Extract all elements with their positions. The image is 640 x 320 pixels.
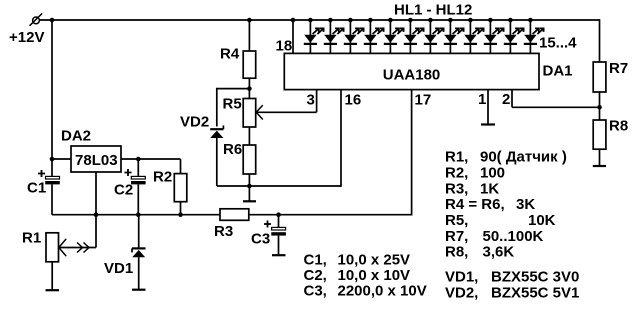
svg-text:R2: R2 bbox=[153, 169, 172, 186]
wire: pin 2 to R7/R8 junction bbox=[512, 106, 600, 108]
zener diode VD2 bbox=[210, 125, 223, 138]
svg-text:10K: 10K bbox=[528, 212, 556, 229]
svg-text:R1,: R1, bbox=[445, 149, 468, 166]
svg-text:VD2,: VD2, bbox=[445, 285, 478, 302]
svg-text:50..100K: 50..100K bbox=[483, 228, 544, 245]
svg-text:R3,: R3, bbox=[445, 181, 468, 198]
svg-text:R7,: R7, bbox=[445, 228, 468, 245]
value list: resistors and diodes bbox=[445, 149, 579, 302]
node: C2 / VD1 junction bbox=[136, 212, 141, 217]
wire: R3 to pin 17 bbox=[249, 214, 412, 216]
ground bar pin 1 bbox=[481, 123, 495, 125]
wire: wiper to pin 3 bbox=[316, 90, 318, 113]
svg-text:R8: R8 bbox=[609, 118, 628, 135]
R1 wiper arrow with chevrons bbox=[59, 239, 96, 256]
node: R4 top junction bbox=[247, 18, 252, 23]
resistor R5 (trimmer) bbox=[243, 99, 256, 128]
svg-text:+12V: +12V bbox=[9, 29, 44, 46]
capacitor C3 bbox=[271, 215, 286, 255]
svg-text:90( Датчик ): 90( Датчик ) bbox=[480, 149, 567, 166]
wire: DA2 ground pin bbox=[95, 172, 97, 215]
ground stub under R6 junction bbox=[243, 186, 256, 201]
node: rail / left branch junction bbox=[50, 18, 55, 23]
svg-text:C1: C1 bbox=[27, 180, 46, 197]
svg-text:15...4: 15...4 bbox=[539, 35, 577, 52]
svg-text:3: 3 bbox=[307, 92, 315, 109]
R5 wiper arrow bbox=[256, 105, 316, 119]
LED HL7 bbox=[424, 18, 444, 54]
wire: VD2 branch down bbox=[216, 88, 218, 127]
node: DA2 gnd / R1 wiper junction bbox=[94, 212, 99, 217]
potentiometer R1 (sensor) bbox=[46, 233, 59, 262]
svg-text:2: 2 bbox=[502, 91, 510, 108]
svg-text:10,0 x 10V: 10,0 x 10V bbox=[338, 267, 411, 284]
wire: pin 2 stub bbox=[511, 90, 513, 108]
wire: right rail down to R7 bbox=[599, 19, 601, 62]
LED HL4 bbox=[364, 18, 384, 54]
svg-text:17: 17 bbox=[415, 92, 432, 109]
ground bar R1 bbox=[46, 289, 60, 291]
LED HL5 bbox=[384, 18, 404, 54]
svg-text:C3,: C3, bbox=[304, 283, 327, 300]
LED HL10 bbox=[484, 18, 504, 54]
svg-text:HL1 - HL12: HL1 - HL12 bbox=[394, 2, 472, 19]
svg-text:100: 100 bbox=[480, 165, 505, 182]
svg-text:R8,: R8, bbox=[445, 244, 468, 261]
node: C3 tap bbox=[276, 212, 281, 217]
LED HL2 bbox=[324, 18, 344, 54]
wire: R5 to R6 bbox=[248, 127, 250, 145]
svg-text:DA1: DA1 bbox=[543, 63, 573, 80]
resistor R7 bbox=[593, 62, 606, 92]
svg-text:3K: 3K bbox=[516, 196, 535, 213]
svg-text:3,6K: 3,6K bbox=[483, 244, 515, 261]
wire: R1 wiper up to bus bbox=[95, 215, 97, 248]
LED HL1 bbox=[304, 18, 324, 54]
svg-text:18: 18 bbox=[276, 38, 293, 55]
LED HL8 bbox=[444, 18, 464, 54]
ground bar R8 bbox=[593, 165, 606, 167]
voltage regulator DA2 78L03 bbox=[71, 146, 121, 172]
input terminal +12V connector bbox=[30, 13, 43, 25]
wire: R8 bottom bbox=[599, 149, 601, 165]
resistor R8 bbox=[593, 120, 606, 149]
LED HL11 bbox=[504, 18, 524, 54]
svg-text:78L03: 78L03 bbox=[75, 152, 118, 169]
svg-text:R4: R4 bbox=[220, 46, 240, 63]
resistor R2 bbox=[174, 159, 187, 215]
capacitor C1 bbox=[45, 176, 60, 184]
wire: bottom bus bbox=[52, 214, 220, 216]
wire: R7 to junction bbox=[599, 92, 601, 120]
resistor R4 bbox=[243, 51, 256, 78]
svg-text:10,0 x 25V: 10,0 x 25V bbox=[338, 252, 411, 269]
wire: R4 branch from rail bbox=[248, 20, 250, 51]
svg-text:R2,: R2, bbox=[445, 165, 468, 182]
svg-text:UAA180: UAA180 bbox=[383, 67, 441, 84]
plus sign C1 bbox=[38, 170, 45, 177]
svg-text:BZX55C 3V0: BZX55C 3V0 bbox=[491, 269, 579, 286]
wire: top supply rail bbox=[39, 19, 599, 21]
LED HL3 bbox=[344, 18, 364, 54]
LED HL6 bbox=[404, 18, 424, 54]
wire: R4 to R5 bbox=[248, 78, 250, 98]
node: R7/R8 junction bbox=[597, 105, 602, 110]
resistor R3 (horizontal) bbox=[220, 209, 249, 221]
svg-text:VD2: VD2 bbox=[180, 114, 209, 131]
svg-text:C2,: C2, bbox=[304, 267, 327, 284]
wire: R6 bottom to junction bbox=[248, 174, 250, 186]
svg-text:1K: 1K bbox=[480, 181, 499, 198]
node: C2 tap bbox=[136, 157, 141, 162]
svg-text:R5,: R5, bbox=[445, 212, 468, 229]
wire: VD2/R6/pin16 horizontal bbox=[217, 185, 341, 187]
svg-text:R5: R5 bbox=[223, 96, 242, 113]
value list: capacitors bbox=[304, 252, 427, 300]
wire: pin 18 from rail to DA1 bbox=[292, 20, 294, 53]
resistor R6 bbox=[243, 145, 256, 174]
svg-text:R4 = R6,: R4 = R6, bbox=[445, 196, 505, 213]
plus sign C3 bbox=[264, 221, 271, 228]
wire: junction to VD2 branch bbox=[217, 88, 250, 90]
wire: VD2 anode down bbox=[216, 138, 218, 186]
wire: left rail down bbox=[51, 20, 53, 177]
svg-text:C1,: C1, bbox=[304, 252, 327, 269]
svg-text:1: 1 bbox=[478, 91, 486, 108]
LED HL9 bbox=[464, 18, 484, 54]
svg-text:C2: C2 bbox=[114, 182, 133, 199]
node: R6 bottom junction bbox=[247, 184, 252, 189]
svg-text:C3: C3 bbox=[251, 231, 270, 248]
LED HL12 bbox=[524, 18, 544, 54]
wire: C1 to bus bbox=[51, 184, 53, 214]
node: DA2 input tap bbox=[50, 157, 55, 162]
ground bar C3 bbox=[272, 254, 286, 256]
capacitor C2 bbox=[131, 159, 146, 215]
svg-text:VD1,: VD1, bbox=[445, 269, 478, 286]
wire: pin 1 to ground bbox=[487, 90, 489, 124]
svg-text:16: 16 bbox=[345, 92, 362, 109]
svg-text:R3: R3 bbox=[214, 223, 233, 240]
svg-text:R1: R1 bbox=[22, 230, 41, 247]
op-amp driver IC DA1 UAA180 box bbox=[284, 53, 539, 89]
ground bar VD1 bbox=[132, 289, 146, 291]
node: R2 bottom junction bbox=[178, 212, 183, 217]
svg-text:R7: R7 bbox=[609, 60, 628, 77]
svg-text:DA2: DA2 bbox=[61, 128, 91, 145]
wire: DA2 output bbox=[121, 158, 181, 160]
svg-text:BZX55C 5V1: BZX55C 5V1 bbox=[491, 285, 579, 302]
svg-text:2200,0 x 10V: 2200,0 x 10V bbox=[338, 283, 427, 300]
node: R4/R5/VD2 junction bbox=[247, 86, 252, 91]
svg-text:R6: R6 bbox=[223, 141, 242, 158]
zener diode VD1 bbox=[132, 215, 146, 289]
wire: R1 bottom bbox=[51, 262, 53, 290]
wire: pin 16 down bbox=[340, 90, 342, 187]
plus sign C2 bbox=[125, 169, 132, 176]
svg-text:VD1: VD1 bbox=[104, 260, 133, 277]
wire: rail to DA2 input bbox=[52, 158, 71, 160]
wire: pin 17 down bbox=[411, 90, 413, 216]
node: pin18 junction on rail bbox=[291, 18, 296, 23]
